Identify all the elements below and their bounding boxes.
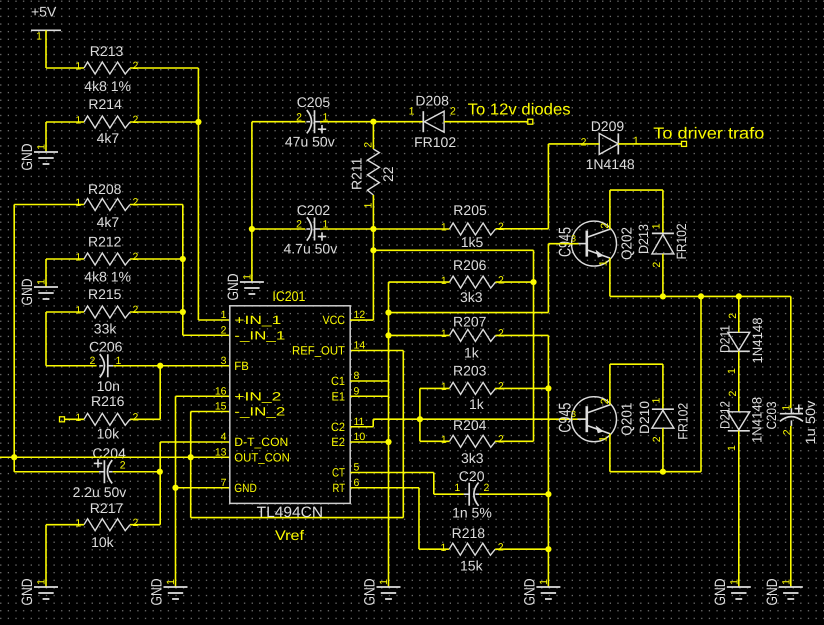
svg-text:2: 2 (498, 328, 504, 340)
diode D212 1N4148 (718, 391, 765, 452)
wire (130, 121, 198, 123)
svg-text:10n: 10n (97, 378, 120, 394)
svg-text:VCC: VCC (323, 313, 346, 327)
wire (198, 319, 229, 321)
wire (372, 195, 374, 320)
svg-text:R206: R206 (453, 257, 487, 273)
junction (417, 416, 423, 422)
wire (495, 548, 548, 550)
wire E1 stub (350, 395, 388, 397)
resistor R217 (75, 500, 138, 550)
svg-text:E1: E1 (332, 389, 346, 403)
resistor R218 (441, 525, 504, 574)
svg-text:D211: D211 (717, 325, 732, 353)
svg-text:4k7: 4k7 (97, 214, 120, 230)
svg-text:R208: R208 (88, 181, 122, 197)
junction (370, 119, 376, 125)
svg-text:+IN_2: +IN_2 (234, 389, 281, 403)
wire out_con net (0, 456, 230, 458)
power +5V (31, 4, 61, 43)
svg-text:2: 2 (450, 106, 456, 118)
svg-text:FR102: FR102 (676, 403, 691, 440)
svg-text:15k: 15k (460, 558, 484, 574)
wire (46, 311, 84, 313)
wire (389, 334, 450, 336)
wire CT to C20 (350, 472, 434, 474)
svg-text:4: 4 (221, 431, 227, 443)
svg-text:1: 1 (36, 31, 42, 43)
svg-text:1: 1 (221, 309, 227, 321)
wire (252, 228, 305, 230)
svg-text:15: 15 (215, 401, 227, 413)
svg-text:2: 2 (651, 262, 663, 268)
diode D213 FR102 (636, 223, 689, 267)
wire (14, 204, 84, 206)
svg-text:D208: D208 (415, 92, 449, 108)
wire gnd bus (175, 396, 177, 586)
svg-text:2: 2 (133, 304, 139, 316)
svg-text:GND: GND (234, 481, 257, 495)
svg-text:IC201: IC201 (272, 288, 305, 304)
svg-text:1k: 1k (469, 396, 485, 412)
svg-text:+5V: +5V (31, 4, 57, 20)
ground (712, 578, 751, 605)
svg-text:C20: C20 (459, 468, 485, 484)
resistor R207 (441, 313, 504, 360)
wire base Q202 (548, 243, 578, 245)
ground (764, 578, 803, 605)
junction (545, 546, 551, 552)
svg-text:E2: E2 (331, 435, 345, 449)
svg-text:1: 1 (36, 144, 48, 150)
resistor R208 (75, 181, 138, 230)
wire bus388 (388, 313, 390, 587)
svg-text:1N4148: 1N4148 (750, 318, 765, 364)
svg-text:Q201: Q201 (620, 403, 636, 436)
diode D208 FR102 (409, 92, 457, 150)
wire (159, 442, 161, 525)
svg-text:1: 1 (726, 445, 738, 451)
wire (496, 281, 534, 283)
svg-text:1: 1 (75, 61, 81, 73)
wire (444, 121, 528, 123)
svg-text:1: 1 (781, 579, 793, 585)
ground (19, 278, 58, 305)
wire (130, 204, 183, 206)
svg-text:47u 50v: 47u 50v (285, 134, 335, 150)
svg-text:16: 16 (215, 385, 227, 397)
svg-text:1: 1 (75, 517, 81, 529)
junction (660, 469, 666, 475)
svg-text:RT: RT (333, 481, 346, 495)
svg-text:2: 2 (133, 412, 139, 424)
junction (530, 279, 536, 285)
wire (373, 249, 533, 251)
wire (738, 296, 740, 332)
svg-text:CT: CT (332, 466, 346, 480)
junction (370, 226, 376, 232)
svg-text:7: 7 (221, 477, 227, 489)
svg-text:1: 1 (75, 115, 81, 127)
resistor R206 (441, 257, 504, 305)
svg-text:2: 2 (498, 274, 504, 286)
svg-text:2: 2 (90, 355, 96, 367)
svg-text:R205: R205 (453, 202, 487, 218)
svg-text:1: 1 (75, 252, 81, 264)
junction (180, 256, 186, 262)
svg-text:D212: D212 (718, 401, 733, 429)
svg-text:GND: GND (19, 578, 36, 605)
junction (11, 454, 17, 460)
svg-text:1: 1 (75, 197, 81, 209)
junction (370, 247, 376, 253)
svg-text:TL494CN: TL494CN (257, 504, 324, 521)
svg-text:2: 2 (727, 313, 739, 319)
junction (736, 293, 742, 299)
svg-text:D209: D209 (591, 118, 625, 134)
wire (496, 228, 549, 230)
resistor R213 (75, 43, 138, 94)
svg-text:3: 3 (221, 355, 227, 367)
wire (45, 30, 47, 68)
ground (225, 273, 264, 300)
svg-text:R207: R207 (453, 313, 487, 329)
svg-text:C205: C205 (297, 94, 331, 110)
svg-text:C202: C202 (297, 202, 331, 218)
svg-text:R212: R212 (88, 234, 122, 250)
ground (149, 578, 188, 605)
junction (385, 310, 391, 316)
svg-text:1: 1 (75, 305, 81, 317)
wire (46, 121, 84, 123)
svg-text:2: 2 (133, 60, 139, 72)
svg-text:3: 3 (571, 234, 576, 244)
resistor R205 (441, 202, 504, 250)
svg-text:1: 1 (538, 579, 550, 585)
svg-text:3k3: 3k3 (460, 289, 483, 305)
svg-text:1: 1 (75, 412, 81, 424)
wire (496, 334, 549, 336)
svg-text:4k8 1%: 4k8 1% (84, 78, 131, 94)
svg-text:1: 1 (454, 482, 460, 494)
svg-text:2: 2 (498, 541, 504, 553)
resistor R216 (75, 393, 138, 441)
capacitor C202 (284, 202, 338, 256)
svg-text:2: 2 (727, 391, 739, 397)
svg-text:2: 2 (498, 381, 504, 393)
wire (320, 121, 423, 123)
junction (545, 491, 551, 497)
wire (790, 296, 792, 408)
svg-text:GND: GND (149, 578, 166, 605)
wire (130, 311, 183, 313)
capacitor C205 (285, 94, 335, 150)
svg-text:2: 2 (781, 429, 793, 435)
junction (157, 469, 163, 475)
svg-text:1: 1 (36, 579, 48, 585)
svg-text:1N4148: 1N4148 (586, 156, 635, 172)
svg-text:-_IN_1: -_IN_1 (234, 328, 285, 342)
wire RT to R218 (350, 487, 419, 489)
node To driver trafo (682, 141, 687, 146)
svg-text:2: 2 (484, 482, 490, 494)
wire (130, 67, 198, 69)
junction (172, 485, 178, 491)
svg-text:1: 1 (651, 223, 663, 229)
junction (249, 226, 255, 232)
wire emitter Q201 (609, 434, 611, 472)
junction (698, 293, 704, 299)
svg-text:1: 1 (165, 579, 177, 585)
resistor R203 (441, 363, 504, 413)
svg-text:2: 2 (133, 517, 139, 529)
svg-text:2: 2 (133, 197, 139, 209)
junction (385, 332, 391, 338)
wire C2 to base (350, 426, 373, 428)
svg-text:1k5: 1k5 (461, 234, 484, 250)
svg-text:1: 1 (409, 106, 415, 118)
svg-text:13: 13 (215, 446, 227, 458)
svg-text:R204: R204 (453, 417, 487, 433)
resistor R211 (348, 142, 396, 209)
svg-text:D213: D213 (636, 224, 651, 254)
svg-text:1: 1 (633, 135, 639, 147)
wire (252, 121, 305, 123)
wire (14, 471, 99, 473)
diode D209 1N4148 (581, 118, 639, 172)
transistor Q202 C945 (555, 221, 635, 266)
wire (618, 143, 681, 145)
wire (159, 366, 161, 420)
svg-text:2: 2 (498, 221, 504, 233)
wire (389, 281, 450, 283)
transistor Q201 C945 (555, 397, 635, 442)
svg-text:1n 5%: 1n 5% (452, 505, 492, 521)
svg-text:C204: C204 (92, 445, 126, 461)
svg-text:GND: GND (712, 578, 729, 605)
wire (113, 471, 160, 473)
svg-text:1: 1 (242, 274, 254, 280)
wire (46, 258, 84, 260)
svg-text:1: 1 (729, 579, 741, 585)
svg-text:3k3: 3k3 (461, 450, 484, 466)
node stub (60, 417, 65, 422)
svg-text:1: 1 (441, 275, 447, 287)
svg-text:1: 1 (36, 279, 48, 285)
svg-text:GND: GND (19, 278, 36, 305)
wire (320, 228, 450, 230)
capacitor C204 (73, 445, 127, 500)
wire (548, 143, 599, 145)
wire (420, 387, 450, 389)
capacitor C206 (89, 339, 123, 394)
svg-text:GND: GND (225, 273, 242, 300)
ground (19, 578, 58, 605)
svg-text:22: 22 (380, 166, 396, 182)
wire (46, 524, 84, 526)
svg-text:2.2u 50v: 2.2u 50v (73, 484, 127, 500)
junction (188, 454, 194, 460)
svg-text:2: 2 (120, 460, 126, 472)
svg-text:1: 1 (726, 368, 738, 374)
resistor R204 (441, 417, 504, 466)
wire (495, 387, 549, 389)
junction (545, 385, 551, 391)
wire (738, 431, 740, 587)
svg-text:1: 1 (597, 260, 609, 266)
svg-text:Q202: Q202 (620, 227, 636, 260)
svg-text:To 12v diodes: To 12v diodes (468, 102, 571, 119)
svg-text:4k8 1%: 4k8 1% (84, 269, 131, 285)
svg-text:C2: C2 (331, 420, 345, 434)
svg-text:4.7u 50v: 4.7u 50v (284, 240, 338, 256)
junction (385, 439, 391, 445)
svg-text:12: 12 (354, 309, 366, 321)
svg-text:10k: 10k (97, 425, 121, 441)
svg-text:FR102: FR102 (674, 224, 689, 260)
diode D210 FR102 (637, 398, 691, 443)
wire (790, 426, 792, 587)
wire (420, 440, 450, 442)
svg-text:1: 1 (378, 579, 390, 585)
svg-text:1N4148: 1N4148 (750, 397, 765, 443)
resistor R215 (75, 286, 138, 336)
svg-text:GND: GND (362, 578, 379, 605)
svg-text:2: 2 (221, 324, 227, 336)
svg-text:D210: D210 (637, 401, 652, 434)
svg-text:R203: R203 (453, 363, 487, 379)
wire collector Q202 (609, 190, 611, 229)
resistor R212 (75, 234, 138, 285)
wire collector Q201 (609, 364, 611, 405)
svg-text:-_IN_2: -_IN_2 (234, 405, 285, 419)
svg-text:1: 1 (651, 398, 663, 404)
svg-text:FB: FB (234, 359, 249, 373)
node To 12v diodes (528, 119, 533, 124)
svg-text:To driver trafo: To driver trafo (653, 126, 764, 143)
svg-text:2: 2 (498, 434, 504, 446)
svg-text:33k: 33k (94, 320, 118, 336)
wire (738, 351, 740, 412)
ground (19, 143, 58, 170)
wire (65, 418, 85, 420)
svg-text:2: 2 (651, 436, 663, 442)
diode D211 1N4148 (717, 313, 765, 374)
svg-text:GND: GND (19, 143, 36, 170)
wire right bus (700, 296, 702, 471)
ground (521, 578, 560, 605)
svg-text:4k7: 4k7 (97, 130, 120, 146)
svg-text:2: 2 (133, 114, 139, 126)
junction (157, 363, 163, 369)
svg-text:1k: 1k (464, 345, 480, 361)
svg-text:GND: GND (521, 578, 538, 605)
svg-text:1: 1 (441, 222, 447, 234)
svg-text:R211: R211 (348, 157, 364, 190)
wire (113, 365, 230, 367)
svg-text:D-T_CON: D-T_CON (234, 435, 288, 449)
capacitor C20 (452, 468, 492, 520)
wire (176, 487, 230, 489)
svg-text:FR102: FR102 (414, 134, 456, 150)
junction (195, 119, 201, 125)
svg-text:R217: R217 (90, 500, 124, 516)
svg-text:REF_OUT: REF_OUT (292, 344, 346, 358)
svg-text:C203: C203 (764, 402, 779, 430)
wire vref bus (191, 411, 230, 413)
svg-text:R213: R213 (90, 43, 124, 59)
wire (662, 428, 664, 472)
svg-text:R216: R216 (91, 393, 125, 409)
svg-text:3: 3 (571, 409, 576, 419)
wire emitter Q202 (609, 258, 611, 296)
op-amp IC201 TL494CN (215, 288, 366, 543)
svg-text:C206: C206 (89, 339, 123, 355)
svg-text:14: 14 (354, 340, 366, 352)
svg-text:R215: R215 (88, 286, 122, 302)
svg-text:Vref: Vref (275, 527, 304, 543)
svg-text:1: 1 (441, 381, 447, 393)
svg-text:1: 1 (441, 542, 447, 554)
svg-text:2: 2 (133, 251, 139, 263)
wire C1 stub (350, 380, 388, 382)
ground (362, 578, 401, 605)
capacitor C203 (764, 400, 818, 444)
wire (662, 254, 664, 297)
svg-text:1: 1 (597, 436, 609, 442)
svg-text:10k: 10k (91, 534, 115, 550)
wire (479, 493, 548, 495)
junction (180, 309, 186, 315)
svg-text:2: 2 (581, 137, 587, 149)
svg-text:+IN_1: +IN_1 (234, 313, 281, 327)
svg-text:R214: R214 (88, 96, 122, 112)
svg-text:1u 50v: 1u 50v (803, 400, 818, 444)
svg-text:R218: R218 (452, 525, 486, 541)
resistor R214 (75, 96, 138, 146)
junction (660, 293, 666, 299)
svg-text:C1: C1 (331, 374, 345, 388)
svg-text:1: 1 (441, 328, 447, 340)
svg-text:GND: GND (764, 578, 781, 605)
wire E2 stub (350, 441, 388, 443)
svg-text:1: 1 (441, 434, 447, 446)
svg-text:OUT_CON: OUT_CON (234, 450, 289, 464)
wire (372, 122, 374, 149)
wire (130, 258, 183, 260)
